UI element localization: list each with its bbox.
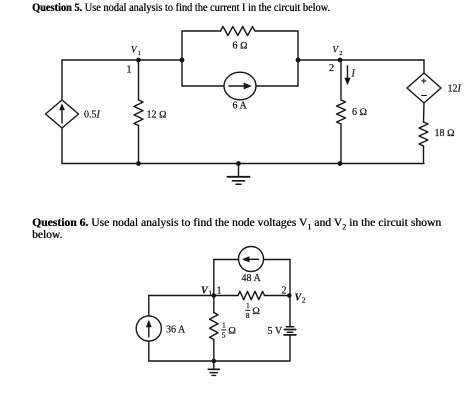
current arrow I at node 2	[347, 66, 349, 81]
resistor R 18 ohm	[419, 122, 428, 146]
svg-text:2: 2	[339, 50, 342, 57]
wire top loop right stub	[264, 259, 291, 261]
wire diamond to 18-ohm	[423, 103, 426, 122]
wire bottom rail Q6	[149, 360, 290, 362]
svg-text:1: 1	[222, 321, 226, 330]
svg-text:I: I	[351, 69, 356, 80]
svg-text:2: 2	[329, 63, 334, 74]
svg-text:36 A: 36 A	[166, 325, 186, 336]
wire loop bottom left stub	[182, 85, 224, 87]
node dot loop left	[180, 58, 185, 63]
node dot 1	[136, 58, 141, 63]
svg-text:8: 8	[246, 311, 250, 320]
svg-text:2: 2	[302, 297, 306, 305]
Question 6 title line 1	[32, 217, 441, 233]
svg-text:12 Ω: 12 Ω	[147, 110, 168, 121]
node dot ground Q6	[212, 359, 217, 364]
current source 36A circle	[136, 316, 161, 341]
wire middle branch bottom stub	[213, 340, 215, 362]
wire loop top right stub	[255, 30, 298, 32]
node dot 2	[338, 58, 343, 63]
dependent voltage source 12I diamond	[407, 73, 441, 103]
0.5I arrow inside diamond	[61, 106, 63, 123]
wire right vertical top	[423, 60, 425, 73]
wire middle rail Q6 right	[265, 295, 291, 297]
svg-text:5: 5	[222, 331, 226, 340]
wire 6-ohm branch top stub	[340, 60, 342, 100]
resistor R 6 ohm right	[337, 100, 346, 124]
svg-text:1: 1	[217, 286, 222, 297]
wire left branch bottom	[148, 341, 150, 361]
svg-text:6 Ω: 6 Ω	[352, 107, 368, 118]
Question 6 title line 2	[32, 229, 62, 242]
svg-text:Ω: Ω	[228, 326, 236, 337]
svg-text:48 A: 48 A	[242, 273, 262, 284]
6A arrow inside	[229, 85, 247, 87]
svg-text:0.5I: 0.5I	[84, 110, 101, 121]
wire loop bottom right stub	[256, 85, 298, 87]
wire middle rail right segment	[298, 59, 424, 61]
wire left branch top	[148, 296, 150, 317]
svg-text:6 A: 6 A	[233, 101, 248, 112]
wire middle rail left segment	[62, 59, 182, 61]
node dot loop right	[296, 58, 301, 63]
svg-text:12I: 12I	[448, 84, 462, 95]
wire right branch top	[289, 296, 291, 327]
node dot V1	[212, 293, 217, 298]
wire right branch bottom	[289, 335, 291, 361]
wire loop top left stub	[182, 30, 221, 32]
node dot bottom below node2	[338, 161, 343, 166]
node dot V2	[287, 293, 292, 298]
wire middle branch top stub	[213, 296, 215, 313]
wire loop right vertical	[297, 31, 299, 86]
wire top loop left stub	[214, 259, 239, 261]
wire loop left vertical	[181, 31, 183, 86]
svg-text:1: 1	[246, 301, 250, 310]
48A arrow inside	[246, 258, 259, 260]
36A arrow inside	[148, 324, 150, 337]
wire left vertical bottom	[61, 128, 63, 164]
resistor R 6 ohm top	[221, 27, 256, 36]
svg-text:5 V: 5 V	[268, 326, 283, 337]
ground Q6 bars	[208, 368, 219, 370]
svg-text:2: 2	[282, 286, 287, 297]
svg-text:1: 1	[138, 50, 141, 57]
Question 5 title	[32, 2, 330, 15]
plus sign inside diamond	[422, 79, 426, 83]
current source 48A circle	[239, 247, 264, 272]
svg-text:Ω: Ω	[252, 306, 260, 317]
battery 5V plates	[286, 326, 293, 328]
resistor R 1/5 ohm	[210, 313, 218, 340]
wire 6-ohm branch bottom stub	[340, 124, 342, 164]
svg-text:18 Ω: 18 Ω	[435, 128, 456, 139]
resistor R 12 ohm	[134, 100, 143, 126]
svg-text:6 Ω: 6 Ω	[233, 41, 249, 52]
wire left vertical top	[61, 60, 63, 100]
wire bottom rail	[62, 163, 424, 165]
wire 12-ohm branch bottom stub	[138, 126, 140, 164]
ground Q6 stem	[213, 361, 215, 369]
svg-text:1: 1	[127, 65, 132, 76]
wire 18-ohm to bottom rail	[423, 146, 425, 164]
minus sign inside diamond	[422, 95, 427, 97]
node dot bottom below node1	[136, 161, 141, 166]
dependent current source 0.5I diamond	[46, 100, 79, 128]
wire top loop left vertical	[213, 260, 215, 296]
wire middle rail Q6 left	[149, 295, 238, 297]
current source 6A circle	[224, 72, 256, 100]
wire top loop right vertical	[289, 260, 291, 296]
ground Q5 bars	[228, 176, 250, 178]
ground Q5 stem	[238, 164, 240, 177]
svg-text:1: 1	[209, 290, 213, 298]
wire 12-ohm branch top stub	[138, 60, 140, 100]
node dot ground	[236, 161, 241, 166]
resistor R 1/8 ohm	[238, 291, 265, 299]
